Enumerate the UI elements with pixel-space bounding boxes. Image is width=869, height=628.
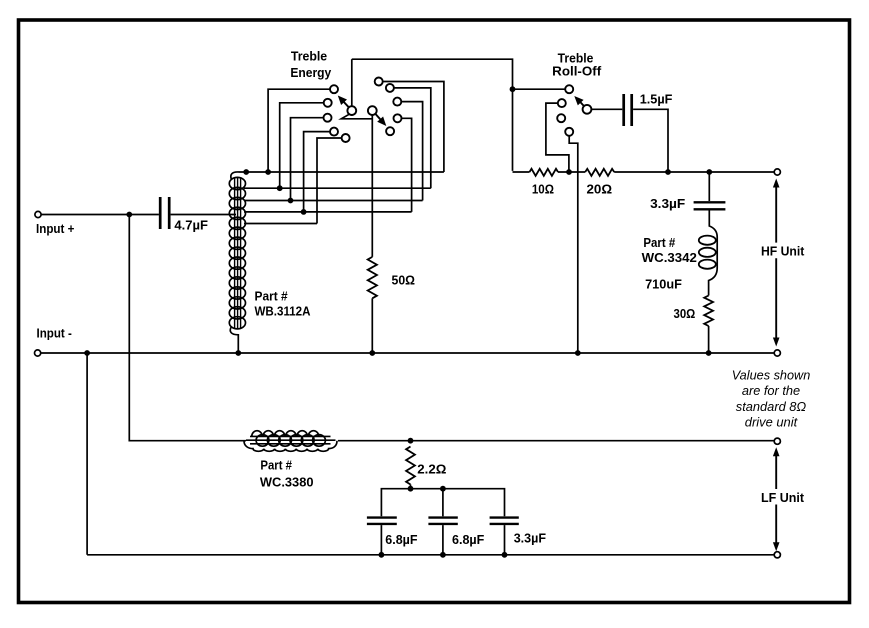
switch SW2 wiper pivot bbox=[583, 105, 592, 114]
svg-text:6.8µF: 6.8µF bbox=[452, 532, 484, 547]
switch SW1b contact S1 bbox=[375, 78, 383, 86]
wire LF cap bus bbox=[381, 489, 504, 517]
wire LF return drop bbox=[86, 353, 88, 555]
terminal Input+ bbox=[35, 211, 41, 217]
junction Input+ / LF feed bbox=[126, 212, 132, 218]
switch SW2 contact T bbox=[565, 85, 573, 93]
wire L2 to LF terminal bbox=[338, 440, 774, 442]
wire tap4 riser to contact D bbox=[304, 132, 330, 212]
switch SW1a wiper pivot bbox=[347, 106, 356, 115]
autotransformer T1 top lead curl bbox=[231, 172, 239, 180]
junction T1 bottom bbox=[235, 350, 241, 356]
resistor R1 50Ω bbox=[368, 257, 377, 298]
svg-text:4.7µF: 4.7µF bbox=[174, 218, 208, 233]
wire C1 to T1 bbox=[171, 214, 236, 216]
capacitor C1 4.7µF bbox=[160, 197, 169, 229]
junction HF branch top bbox=[706, 169, 712, 175]
svg-text:LF Unit: LF Unit bbox=[761, 490, 805, 505]
wire C4 top lead bbox=[442, 489, 444, 517]
wire R1 to minus bus bbox=[371, 298, 373, 353]
terminal LF- bbox=[774, 552, 780, 558]
junction tap2 / contact B riser bbox=[277, 185, 283, 191]
wire HF branch to C3 bbox=[708, 172, 710, 201]
junction tap4 / contact D riser bbox=[301, 209, 307, 215]
resistor R4 30Ω bbox=[704, 296, 713, 327]
wire SW2 contact c drop bbox=[569, 136, 578, 353]
svg-text:1.5µF: 1.5µF bbox=[640, 92, 673, 107]
wire R4 to minus bus bbox=[708, 326, 710, 353]
arrow HF Unit span bbox=[773, 179, 780, 347]
resistor R2 10Ω bbox=[530, 169, 559, 176]
wire tap1 riser to contact A bbox=[268, 89, 330, 172]
svg-text:3.3µF: 3.3µF bbox=[650, 196, 685, 211]
wire minus bus bbox=[41, 352, 774, 354]
switch SW1a contact C bbox=[324, 114, 332, 122]
svg-text:10Ω: 10Ω bbox=[532, 182, 554, 197]
inductor L1 WC.3342 loops bbox=[699, 236, 716, 245]
switch SW2 contact b bbox=[557, 114, 565, 122]
svg-text:50Ω: 50Ω bbox=[392, 273, 416, 288]
capacitor C3 3.3µF bbox=[694, 202, 726, 209]
wire HF rail left bbox=[513, 171, 530, 173]
svg-text:WB.3112A: WB.3112A bbox=[255, 304, 311, 319]
junction R5 bottom bbox=[408, 486, 414, 492]
switch SW1b contact S3 bbox=[393, 98, 401, 106]
wire top rail to roll-off bbox=[352, 59, 513, 171]
junction R4 bottom bbox=[706, 350, 712, 356]
svg-text:Values shownare for thestandar: Values shownare for thestandard 8Ωdrive … bbox=[732, 367, 811, 429]
wire tap4 riser to contact S4 bbox=[402, 118, 412, 212]
capacitor C5 6.8µF (mid) bbox=[428, 518, 457, 524]
wire HF rail right bbox=[614, 171, 774, 173]
wire HF rail mid bbox=[558, 171, 585, 173]
switch SW1a contact A bbox=[330, 85, 338, 93]
wire LF bottom bus bbox=[87, 554, 774, 556]
svg-text:HF Unit: HF Unit bbox=[761, 244, 805, 259]
resistor R3 20Ω bbox=[585, 169, 614, 176]
svg-text:3.3µF: 3.3µF bbox=[514, 531, 546, 546]
wire SW1a wiper linkage bbox=[341, 114, 372, 119]
switch SW1b wiper pivot bbox=[368, 106, 377, 115]
wire tap 3 bbox=[244, 200, 423, 202]
wire tap 2 bbox=[244, 187, 431, 189]
svg-text:Part #: Part # bbox=[643, 235, 675, 250]
switch SW2 wiper arrow bbox=[574, 96, 584, 106]
switch SW1a wiper arrow bbox=[338, 96, 349, 108]
svg-text:20Ω: 20Ω bbox=[587, 182, 613, 197]
switch SW1b contact S2 bbox=[386, 84, 394, 92]
wire C2 to HF rail bbox=[633, 109, 668, 172]
junction top rail / SW2 feed bbox=[510, 86, 516, 92]
wire tap2 riser to contact B bbox=[280, 103, 324, 188]
autotransformer T1 bottom lead bbox=[230, 327, 238, 352]
arrow LF Unit span bbox=[773, 447, 780, 551]
svg-text:Energy: Energy bbox=[290, 65, 332, 80]
switch SW1b contact S5 bbox=[386, 127, 394, 135]
terminal HF- bbox=[774, 350, 780, 356]
svg-text:710uF: 710uF bbox=[645, 277, 682, 292]
wire Input+ to C1 bbox=[41, 214, 159, 216]
inductor L2 WC.3380 bbox=[244, 431, 337, 452]
junction tap3 / contact C riser bbox=[288, 198, 294, 204]
wire tap 5 bbox=[244, 223, 317, 225]
wire tap 4 bbox=[244, 211, 412, 213]
junction C2 bottom bbox=[665, 169, 671, 175]
junction R5 top bbox=[408, 438, 414, 444]
junction tap1 / contact A riser bbox=[265, 169, 271, 175]
wire tap2 riser to contact S2 bbox=[394, 88, 431, 188]
junction minus/LF return bbox=[84, 350, 90, 356]
junction C4 top bbox=[440, 486, 446, 492]
wire R5 to cap bus bbox=[410, 485, 412, 489]
wire tap3 riser to contact S3 bbox=[402, 102, 423, 201]
svg-text:Part #: Part # bbox=[260, 458, 292, 473]
junction R1 bottom bbox=[369, 350, 375, 356]
wire SW1b wiper shaft upper bbox=[371, 115, 373, 257]
wire C5 bottom lead bbox=[442, 525, 444, 555]
switch SW1a contact B bbox=[324, 99, 332, 107]
wire C6 bottom lead bbox=[504, 525, 506, 555]
switch SW1a contact D bbox=[330, 128, 338, 136]
switch SW1b wiper arrow bbox=[375, 114, 386, 126]
svg-text:WC.3342: WC.3342 bbox=[642, 250, 697, 265]
capacitor C4 6.8µF (left) bbox=[367, 518, 397, 524]
autotransformer T1 WB.3112A coil bbox=[229, 177, 245, 329]
junction C5 bottom bbox=[440, 552, 446, 558]
svg-text:2.2Ω: 2.2Ω bbox=[417, 462, 446, 477]
wire C3 to L1 bbox=[709, 211, 718, 296]
svg-text:Treble: Treble bbox=[291, 49, 327, 64]
capacitor C2 1.5µF bbox=[624, 94, 632, 126]
switch SW2 contact c bbox=[565, 128, 573, 136]
svg-text:Roll-Off: Roll-Off bbox=[552, 64, 602, 79]
junction SW2c bottom bbox=[575, 350, 581, 356]
junction R2/R3/SW2a bbox=[566, 169, 572, 175]
switch SW1b contact S4 bbox=[394, 114, 402, 122]
wire Input+ drop to LF bbox=[129, 215, 246, 441]
wire SW2 wiper to C2 bbox=[591, 108, 622, 110]
svg-text:Part #: Part # bbox=[255, 288, 288, 303]
resistor R5 2.2Ω bbox=[406, 447, 415, 485]
terminal LF+ bbox=[774, 438, 780, 444]
svg-text:30Ω: 30Ω bbox=[674, 306, 696, 321]
svg-text:Input -: Input - bbox=[37, 326, 72, 341]
switch SW1a contact E bbox=[342, 134, 350, 142]
terminal HF+ bbox=[774, 169, 780, 175]
wire C4 bottom lead bbox=[380, 525, 382, 555]
terminal Input- bbox=[35, 350, 41, 356]
wire tap3 riser to contact C bbox=[291, 118, 324, 201]
wire SW2 contact a loop bbox=[546, 103, 569, 171]
svg-text:6.8µF: 6.8µF bbox=[385, 532, 417, 547]
autotransformer T1 core lines bbox=[235, 177, 241, 329]
svg-text:WC.3380: WC.3380 bbox=[260, 474, 314, 489]
wire tap1 riser to contact S1 bbox=[383, 82, 444, 173]
capacitor C6 3.3µF (LF) bbox=[490, 518, 519, 524]
svg-text:Input +: Input + bbox=[36, 221, 74, 236]
wire SW1a wiper to top rail bbox=[351, 59, 353, 106]
wire tap 1 bbox=[239, 171, 444, 173]
wire SW2 feed bbox=[513, 88, 566, 90]
junction C4 bottom bbox=[379, 552, 385, 558]
switch SW2 contact a bbox=[558, 99, 566, 107]
junction tap1 coil bbox=[243, 169, 249, 175]
wire tap5 riser to contact E bbox=[317, 138, 342, 224]
junction C6 bottom bbox=[502, 552, 508, 558]
